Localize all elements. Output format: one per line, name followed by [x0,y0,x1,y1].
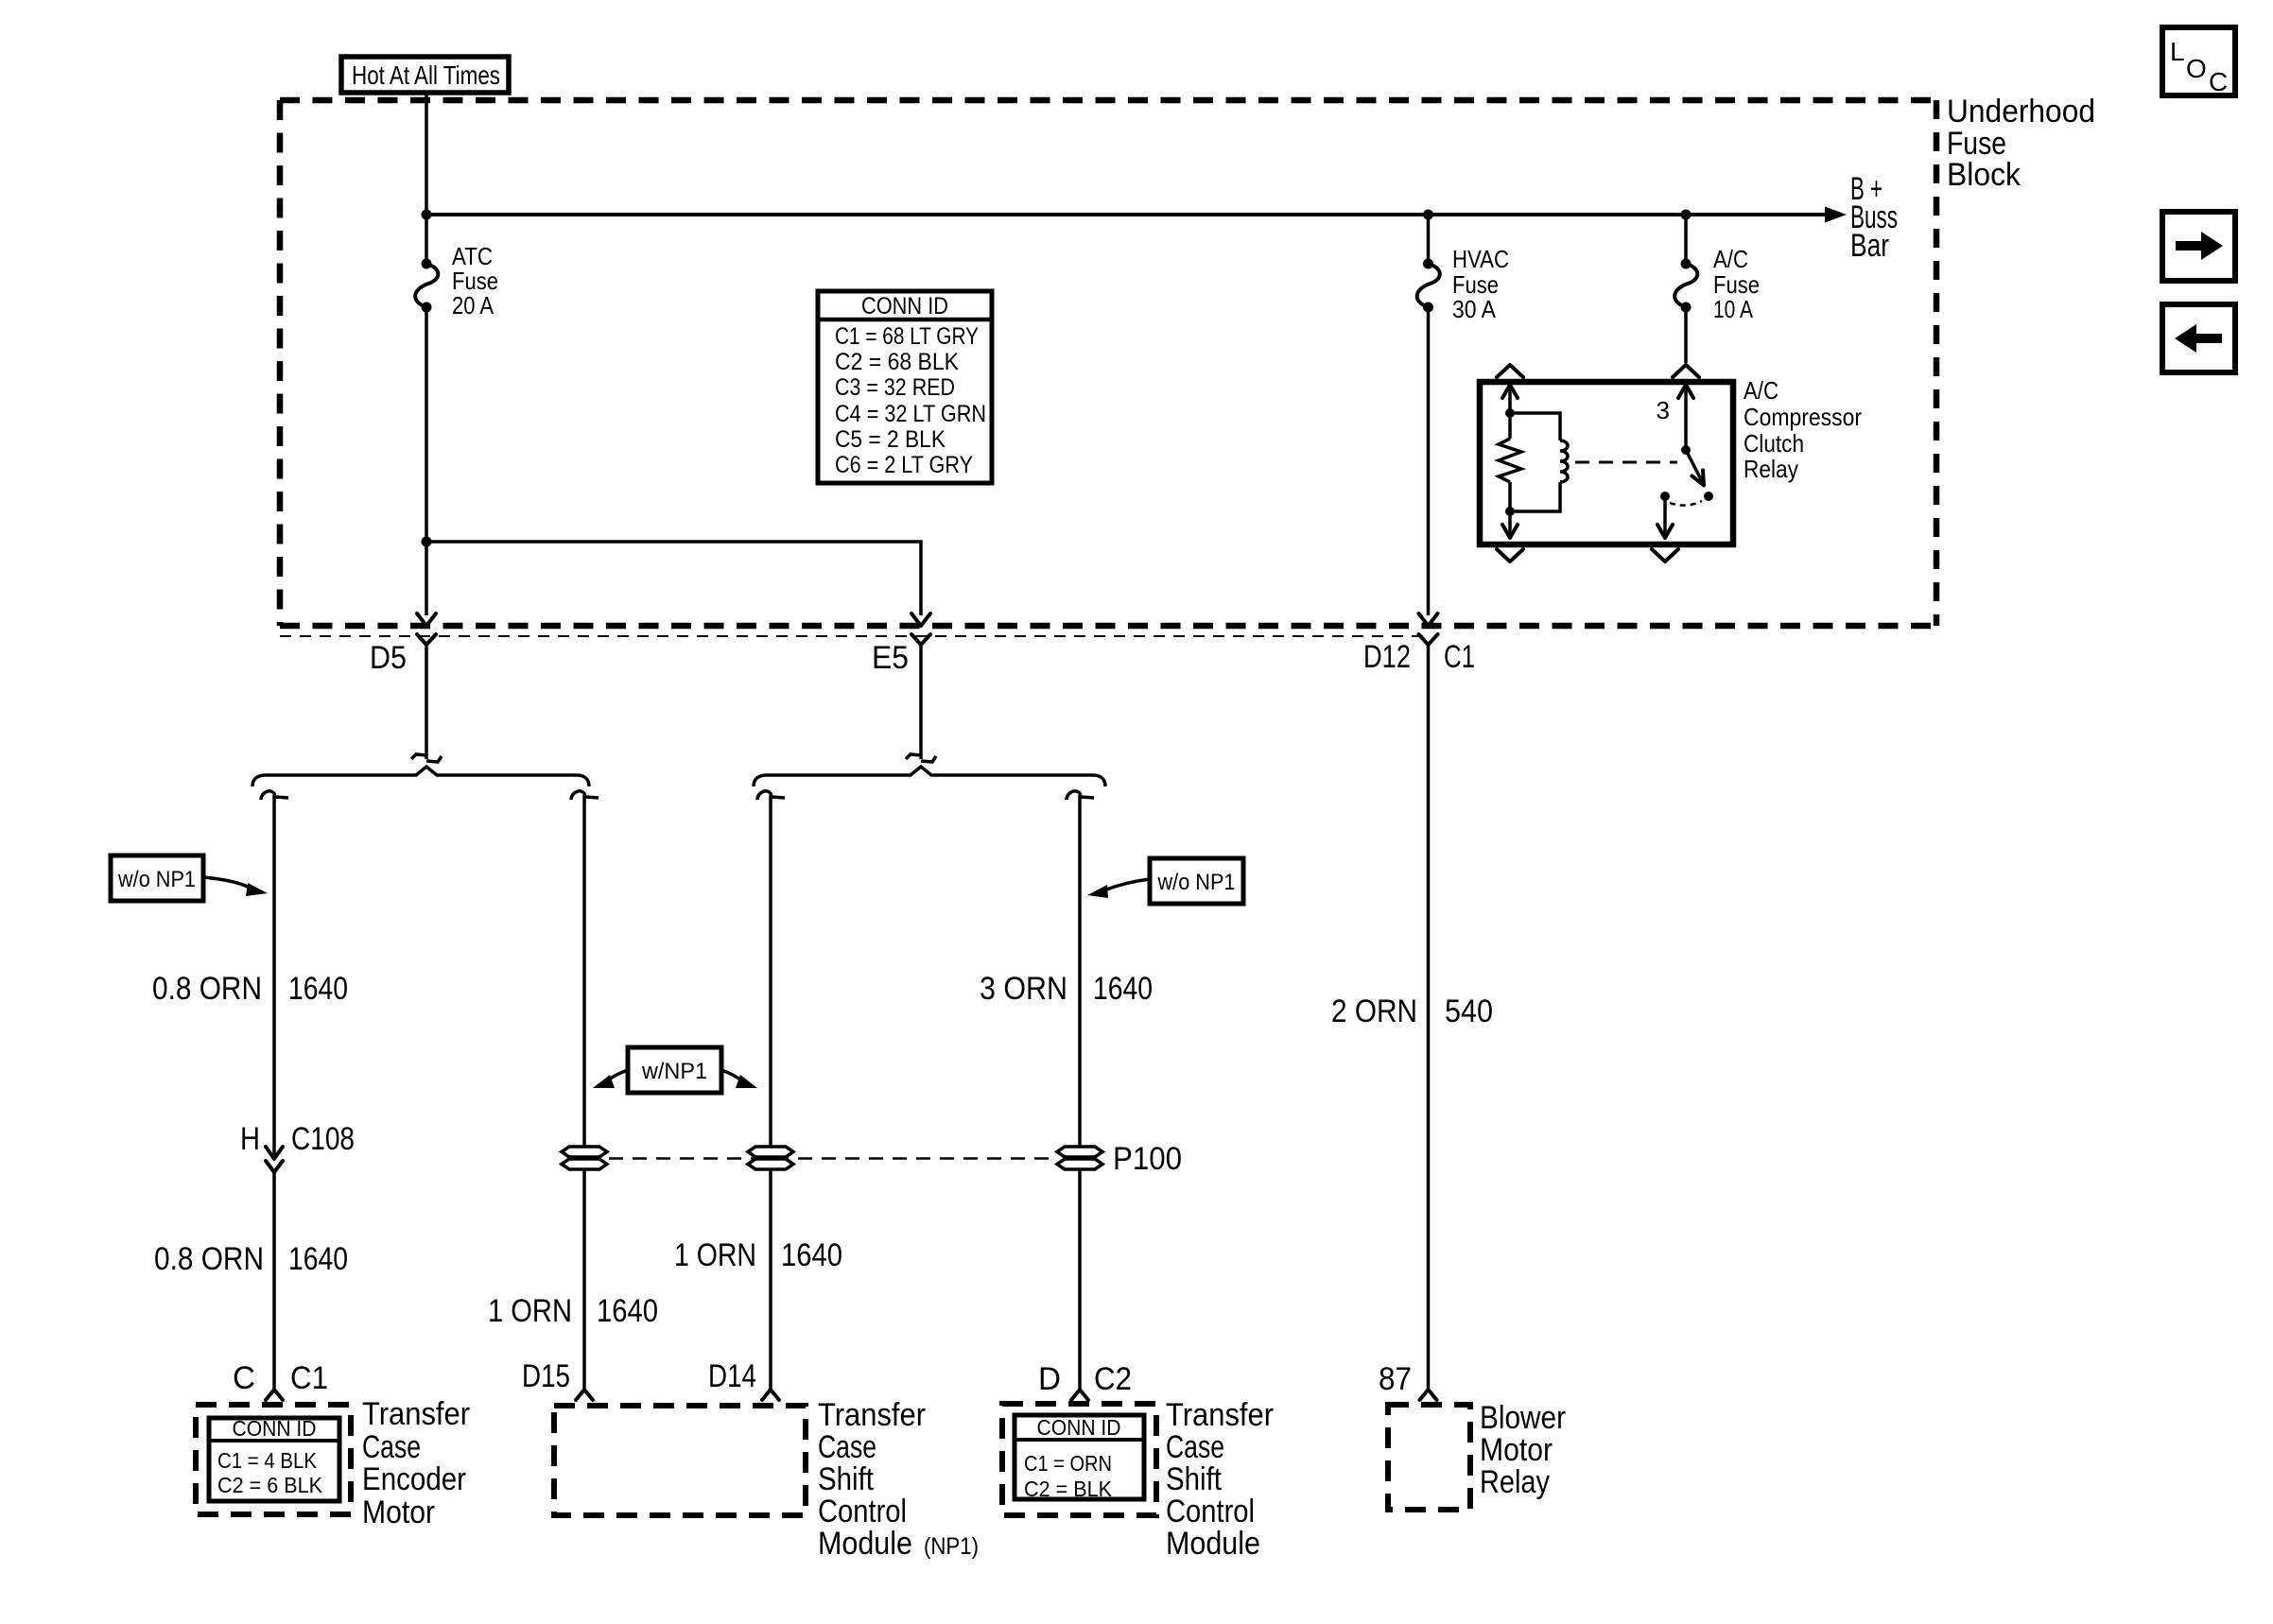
label Transfer Case Encoder Motor [362,1396,470,1530]
transfer case encoder motor dashed box [196,1405,351,1514]
dashed pass-through link line [609,1157,1055,1160]
svg-text:Control: Control [1166,1494,1255,1529]
svg-text:C2 = BLK: C2 = BLK [1024,1477,1113,1501]
relay switch movable arm [1686,450,1704,486]
connector fork 87 at blower relay [1420,1390,1437,1400]
svg-text:A/C: A/C [1713,245,1748,273]
svg-text:Underhood: Underhood [1947,94,2095,130]
svg-text:10 A: 10 A [1713,295,1754,323]
node relay switch output contact dot [1660,492,1670,501]
svg-text:(NP1): (NP1) [924,1533,979,1560]
dashed actuation link coil to switch [1575,461,1677,464]
connector fork E5 [911,634,930,645]
svg-text:C: C [2209,67,2228,96]
svg-text:A/C: A/C [1744,376,1778,405]
node junction dot ATC/E5 branch [422,537,432,547]
wire branch D15 lower run [582,1169,586,1390]
connector fork C/C1 at encoder motor [266,1390,283,1400]
option label box w/NP1 (middle) [628,1047,721,1093]
svg-text:C2 = 68 BLK: C2 = 68 BLK [835,349,959,375]
svg-text:w/o NP1: w/o NP1 [1157,870,1236,895]
wire A/C fuse down to relay [1684,307,1688,363]
wire branch D14 lower run [769,1169,772,1390]
underhood fuse block dashed box bottom edge [280,623,1936,630]
harness brace under D5 [252,767,589,786]
svg-text:Relay: Relay [1744,455,1798,483]
fuse ATC 20A symbol [415,259,438,313]
svg-text:Blower: Blower [1480,1400,1566,1436]
connector C108 fork [266,1161,283,1172]
svg-text:Compressor: Compressor [1744,403,1862,431]
svg-text:2 ORN: 2 ORN [1331,993,1417,1029]
underhood fuse block dashed box left edge [277,100,284,626]
label box Hot At All Times [341,57,509,93]
wire branch hook C/C1 top [261,791,288,800]
connector fork D15 [576,1390,593,1400]
svg-text:D: D [1038,1361,1061,1397]
svg-text:Module: Module [1166,1526,1260,1562]
svg-text:C: C [233,1360,255,1396]
svg-text:Control: Control [818,1494,907,1529]
svg-text:Motor: Motor [362,1494,435,1530]
wire branch hook D/C2 top [1067,791,1094,800]
option label box w/o NP1 (right) [1150,858,1243,904]
wire break jog at E5 stub end [906,754,936,762]
transfer case shift control module NP1 dashed box [554,1406,806,1515]
wire branch D/C2 upper run [1078,795,1082,1148]
pointer arrow from w/NP1 to D15 wire [593,1070,628,1088]
blower motor relay dashed box [1388,1405,1470,1510]
svg-text:H: H [240,1121,260,1157]
label A/C Fuse 10 A [1713,245,1760,323]
fuse block connector thin dashed boundary [280,635,1430,637]
svg-text:C3 = 32 RED: C3 = 32 RED [835,374,955,401]
svg-text:O: O [2186,54,2207,83]
label B+ Buss Bar [1850,171,1898,264]
svg-text:Transfer: Transfer [362,1396,470,1432]
pointer arrow from right w/o NP1 to D/C2 wire [1087,879,1150,898]
svg-text:C1 = ORN: C1 = ORN [1024,1451,1112,1476]
svg-text:HVAC: HVAC [1452,245,1509,273]
wire HVAC fuse down to D12 [1427,307,1431,615]
svg-text:3: 3 [1657,396,1670,424]
pointer arrow from w/o NP1 to C/C1 wire [203,877,268,896]
svg-text:1640: 1640 [1093,971,1153,1007]
svg-text:1640: 1640 [597,1293,658,1329]
svg-text:Bar: Bar [1850,228,1889,264]
svg-text:D15: D15 [522,1358,570,1394]
CONN ID reference table [818,291,992,483]
underhood fuse block dashed box right edge [1934,100,1940,626]
relay coil pin top break chevron [1497,365,1523,377]
B+ buss bar arrowhead [1825,207,1847,223]
svg-text:C4 = 32 LT GRN: C4 = 32 LT GRN [835,401,986,427]
svg-text:CONN ID: CONN ID [233,1416,317,1441]
svg-text:C1 = 4 BLK: C1 = 4 BLK [217,1448,318,1473]
node junction dot at bus tap ATC [422,210,432,220]
label Transfer Case Shift Control Module (right) [1166,1397,1274,1562]
wire branch D/C2 lower run [1078,1169,1082,1390]
svg-text:Case: Case [818,1429,876,1465]
relay switch common pin 3 arrow [1678,385,1693,450]
encoder motor CONN ID table [209,1416,339,1501]
wire branch from ATC column to E5 column [426,542,921,615]
connector arrow into fuse block bottom at E5 [911,613,930,626]
node relay switch pivot dot [1681,445,1691,455]
connector arrow into fuse block bottom at D5 [417,613,436,626]
fuse HVAC 30A symbol [1417,215,1440,313]
relay coil (inductor) [1510,413,1568,511]
wire branch hook D15 top [571,791,599,800]
fuse A/C 10A symbol [1674,215,1697,313]
svg-text:Block: Block [1947,157,2021,193]
svg-text:Shift: Shift [818,1461,874,1497]
svg-text:540: 540 [1445,993,1493,1029]
connector C108 arrow on C/C1 wire [266,1147,283,1159]
option label box w/o NP1 (left) [111,855,203,901]
svg-text:Encoder: Encoder [362,1461,466,1497]
label HVAC Fuse 30 A [1452,245,1509,323]
svg-text:w/NP1: w/NP1 [641,1059,707,1084]
svg-text:1640: 1640 [781,1237,842,1273]
wire ATC fuse to D5 [425,307,428,615]
svg-text:87: 87 [1379,1361,1412,1397]
svg-text:D5: D5 [370,640,407,676]
svg-text:E5: E5 [872,640,909,676]
label Underhood Fuse Block [1947,94,2095,193]
svg-text:C2: C2 [1094,1361,1132,1397]
node junction dot at bus tap A/C [1681,210,1692,220]
svg-text:Motor: Motor [1480,1432,1553,1468]
svg-text:C5 = 2 BLK: C5 = 2 BLK [835,426,946,453]
A/C compressor clutch relay box [1480,382,1733,544]
connector arrow into fuse block bottom at D12 [1419,613,1438,626]
pointer arrow from w/NP1 to D14 wire [721,1070,757,1088]
wire B+ buss bar horizontal [426,213,1827,216]
wire branch D14 upper run [769,795,772,1148]
wire branch hook D14 top [757,791,785,800]
svg-text:C6 = 2 LT GRY: C6 = 2 LT GRY [835,452,973,478]
connector fork D/C2 [1071,1390,1088,1400]
svg-text:Transfer: Transfer [1166,1397,1274,1433]
svg-text:Shift: Shift [1166,1461,1222,1497]
svg-text:0.8 ORN: 0.8 ORN [154,1241,264,1277]
svg-text:Case: Case [362,1429,421,1465]
svg-text:CONN ID: CONN ID [861,293,948,320]
svg-text:Module: Module [818,1526,912,1562]
svg-text:C108: C108 [291,1121,355,1157]
relay coil branch top pin arrow [1502,385,1518,413]
wire D5 stub below fork [425,645,428,759]
relay switch pin 3 top break chevron [1673,365,1699,377]
svg-text:CONN ID: CONN ID [1037,1415,1121,1440]
svg-text:C1: C1 [1444,639,1475,675]
svg-text:C1: C1 [290,1360,328,1396]
svg-text:30 A: 30 A [1452,295,1497,323]
relay switch output pin arrow [1657,496,1673,538]
in-line connector lens pair on D15 wire [562,1147,607,1169]
connector fork D5 [417,634,436,645]
connector fork D12/C1 [1419,634,1438,645]
svg-text:C2 = 6 BLK: C2 = 6 BLK [217,1473,323,1497]
svg-text:D14: D14 [708,1358,756,1394]
wire from Hot At All Times down to bus [425,93,428,264]
svg-text:1 ORN: 1 ORN [674,1237,756,1273]
relay coil pin bottom break chevron [1497,549,1523,561]
wire branch D15 upper run [582,795,586,1148]
svg-text:1640: 1640 [288,971,348,1007]
svg-text:D12: D12 [1363,639,1411,675]
svg-text:Clutch: Clutch [1744,429,1804,458]
svg-text:P100: P100 [1113,1141,1182,1177]
node junction dot at bus tap HVAC [1423,210,1433,220]
svg-text:Case: Case [1166,1429,1224,1465]
svg-text:3 ORN: 3 ORN [980,971,1067,1007]
wire E5 stub below fork [919,645,923,759]
svg-text:Relay: Relay [1480,1464,1550,1500]
wire HVAC column lower run to 87 [1427,645,1431,1390]
relay coil bottom pin arrow [1502,511,1518,538]
wire branch C/C1 lower run [272,1172,276,1390]
shift control module CONN ID table [1015,1415,1144,1501]
svg-text:1640: 1640 [288,1241,348,1277]
svg-text:0.8 ORN: 0.8 ORN [152,971,262,1007]
dashed travel arc between contacts [1670,501,1702,506]
svg-text:L: L [2170,37,2185,66]
node relay coil top junction dot [1505,408,1515,418]
svg-text:w/o NP1: w/o NP1 [117,867,196,892]
in-line connector lens pair on D/C2 wire (P100) [1057,1147,1102,1169]
label Transfer Case Shift Control Module (NP1) [818,1397,979,1562]
label A/C Compressor Clutch Relay [1744,376,1862,483]
svg-text:20 A: 20 A [452,291,495,320]
svg-text:C1 = 68 LT GRY: C1 = 68 LT GRY [835,323,979,350]
wire branch C/C1 upper run [272,795,276,1159]
label Blower Motor Relay [1480,1400,1566,1500]
transfer case shift control module dashed box (right) [1002,1404,1156,1515]
svg-text:Hot At All Times: Hot At All Times [352,60,500,90]
LOC legend box [2162,27,2235,96]
node relay coil bottom junction dot [1505,507,1515,516]
legend box page-continue left arrow [2162,304,2235,372]
legend box page-continue right arrow [2162,212,2235,281]
relay switch output bottom break chevron [1652,549,1678,561]
in-line connector lens pair on D14 wire [748,1147,793,1169]
wire break jog at D5 stub end [411,754,442,762]
harness brace under E5 [754,767,1105,786]
resistor inside relay [1499,413,1521,511]
svg-text:1 ORN: 1 ORN [488,1293,572,1329]
label ATC Fuse 20 A [452,242,498,320]
connector fork D14 [762,1390,779,1400]
node relay switch throw contact dot [1704,492,1713,501]
svg-text:Transfer: Transfer [818,1397,926,1433]
underhood fuse block dashed box top edge [280,97,1936,104]
